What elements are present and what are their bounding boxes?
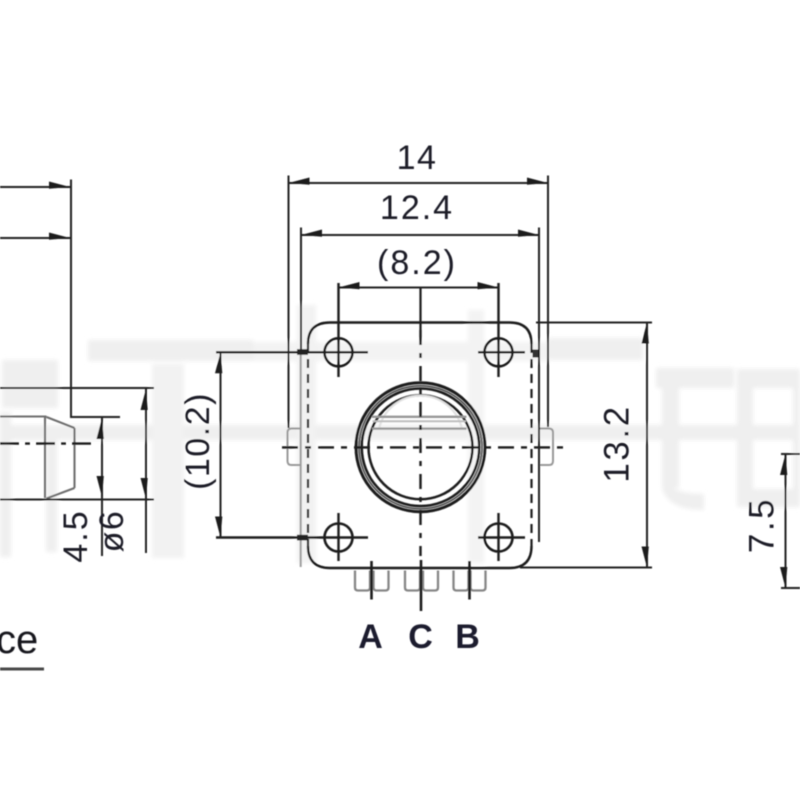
svg-text:C: C	[408, 618, 433, 656]
underline	[0, 668, 44, 671]
body rear side lines	[300, 352, 302, 567]
dim o6 top ext	[0, 387, 154, 389]
dimension 12.4	[301, 228, 539, 543]
svg-text:12.4: 12.4	[380, 189, 454, 227]
dimension 13.2	[520, 323, 652, 568]
dim o6 line	[145, 388, 147, 553]
left vertical extension	[71, 180, 120, 418]
shaft top flat edge	[0, 415, 47, 417]
left dim line 2	[0, 237, 70, 239]
svg-text:A: A	[358, 618, 383, 656]
shaft tip face	[73, 428, 75, 488]
body hidden side left	[307, 344, 309, 546]
side tab right	[539, 429, 553, 466]
svg-text:(10.2): (10.2)	[179, 392, 217, 490]
svg-text:4.5: 4.5	[57, 509, 95, 562]
dim 4.5 line	[101, 417, 103, 556]
shaft flat lines	[372, 417, 467, 429]
svg-text:7.5: 7.5	[743, 497, 782, 553]
dim o6 bottom ext	[0, 499, 154, 501]
junction blob left	[297, 349, 308, 355]
arrows left view	[49, 182, 148, 500]
shaft tip chamfer top	[47, 417, 75, 428]
svg-text:13.2: 13.2	[598, 404, 637, 482]
dimension (8.2)	[339, 287, 499, 289]
svg-text:14: 14	[397, 139, 438, 177]
svg-text:ø6: ø6	[93, 510, 131, 553]
svg-text:(8.2): (8.2)	[377, 244, 457, 282]
left dim line 1	[0, 186, 70, 188]
mounting holes	[325, 338, 513, 551]
centerline horizontal	[282, 446, 569, 448]
dimension (10.2)	[220, 352, 222, 537]
watermark	[0, 305, 800, 563]
shaft chamfer start edge	[44, 417, 46, 498]
left view centerline	[0, 442, 93, 444]
center rings	[356, 383, 485, 512]
shaft flat back arc	[379, 396, 462, 429]
body hidden side right	[530, 344, 532, 546]
svg-text:B: B	[455, 618, 480, 656]
shaft tip chamfer bottom	[47, 488, 75, 499]
side tab left	[288, 429, 301, 466]
pin center lines	[372, 560, 470, 611]
centerline vertical	[419, 288, 421, 331]
hole crosshairs	[216, 283, 525, 561]
junction blob bottom-left	[297, 535, 308, 541]
body outline solid top	[308, 323, 532, 345]
body outline solid bottom	[308, 546, 532, 568]
dimension 14	[289, 176, 549, 429]
junction blob right	[533, 350, 540, 358]
svg-text:ce: ce	[0, 618, 38, 662]
dimension 7.5	[781, 454, 800, 588]
pins gray U shapes	[355, 571, 486, 591]
